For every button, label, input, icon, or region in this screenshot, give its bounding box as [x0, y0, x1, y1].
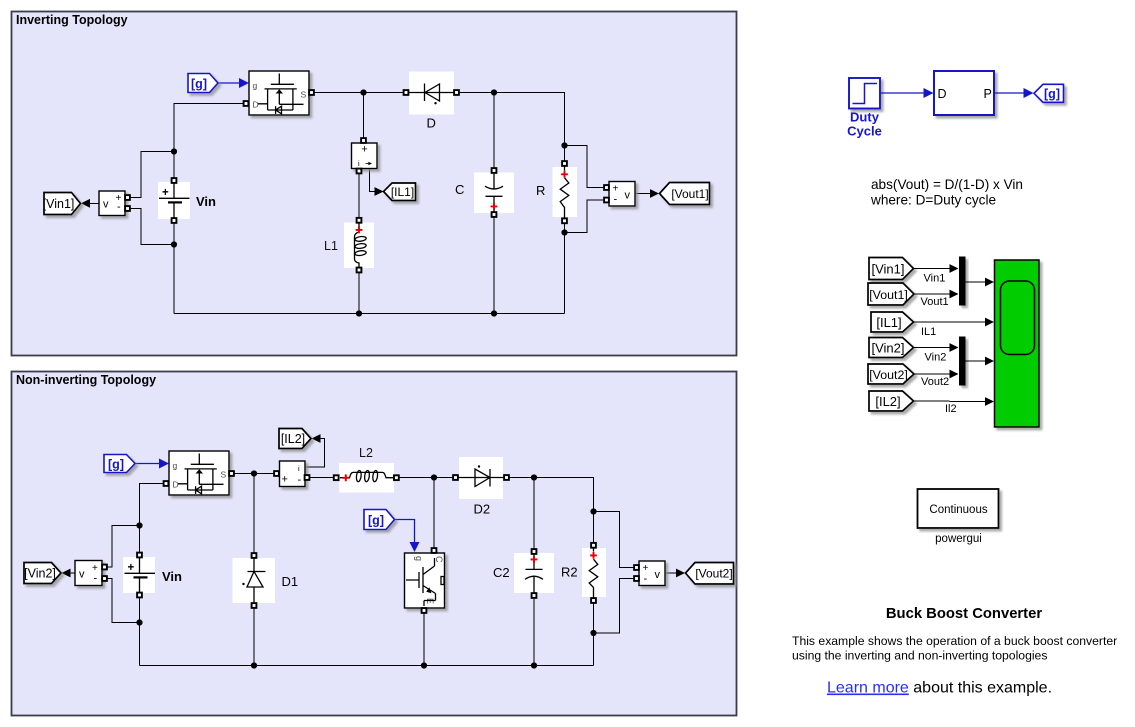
- svg-text:Duty: Duty: [850, 110, 880, 125]
- step source Duty Cycle: [847, 78, 882, 139]
- goto tag [Vin1]: [43, 193, 81, 215]
- wire: Mosfet source to diode D anode: [314, 92, 405, 94]
- wire: [g] to Mosfet gate: [218, 78, 249, 88]
- svg-text:[Vout2]: [Vout2]: [695, 567, 732, 581]
- from tag [g] (gate signal): [188, 74, 218, 93]
- svg-text:[g]: [g]: [1044, 87, 1060, 101]
- wire: L1 bottom to rail: [358, 273, 360, 314]
- svg-text:-: -: [117, 201, 121, 213]
- svg-text:Vin1: Vin1: [924, 273, 946, 285]
- svg-text:g: g: [173, 461, 178, 471]
- goto tag [IL2]: [279, 429, 311, 449]
- goto tag [Vin2]: [24, 563, 61, 584]
- node: IGBT rail junction: [421, 662, 427, 668]
- wire: Duty Cycle to subsystem D: [881, 88, 934, 98]
- inductor L2: [334, 446, 399, 493]
- svg-text:v: v: [79, 569, 85, 581]
- svg-text:+: +: [361, 144, 367, 156]
- svg-text:Vin: Vin: [196, 194, 216, 209]
- diode D: [404, 72, 459, 131]
- wire: R2 bottom to V4 minus: [594, 579, 635, 634]
- from tag [Vout1] (scope): [868, 283, 914, 305]
- resistor R2: [561, 543, 606, 603]
- transistor Mosfet (inverting): [244, 71, 314, 115]
- wire: Vin2 to mux2: [914, 343, 959, 363]
- wire: D1 bottom to rail: [253, 608, 255, 666]
- wire: C2 top branch: [533, 478, 535, 550]
- wire: Vout1 to mux1: [914, 290, 959, 308]
- wire: diode D cathode to R top corner: [456, 93, 565, 162]
- wire: I1 signal to goto IL1: [370, 169, 384, 196]
- svg-text:L2: L2: [359, 446, 373, 460]
- powergui block: [918, 489, 999, 545]
- scope block: [995, 260, 1040, 427]
- voltage measurement V3 (Vin2): [75, 561, 107, 586]
- svg-text:-: -: [298, 474, 302, 486]
- wire: V1 output to goto Vin1: [81, 199, 99, 208]
- wire: R bottom to rail: [564, 223, 566, 314]
- goto tag [g] (IGBT gate): [364, 510, 395, 530]
- node: D1 rail junction: [251, 662, 257, 668]
- resistor R: [536, 161, 577, 223]
- svg-text:D: D: [253, 100, 259, 110]
- svg-text:-: -: [614, 194, 618, 206]
- wire: L2 to D2 anode: [398, 477, 454, 479]
- wire: C2 bottom to rail: [533, 599, 535, 666]
- svg-text:D: D: [938, 87, 947, 101]
- wire: Mosfet1 drain to Vin node: [140, 484, 167, 553]
- svg-text:Inverting Topology: Inverting Topology: [16, 13, 128, 27]
- annotation: description: [792, 634, 1117, 663]
- annotation: title: [886, 606, 1042, 622]
- wire: junction down to D1: [253, 474, 255, 554]
- diode D1: [233, 553, 299, 608]
- svg-text:Cycle: Cycle: [847, 124, 882, 139]
- svg-text:IL1: IL1: [921, 326, 936, 338]
- wire: junction down to IGBT collector: [433, 478, 435, 549]
- wire: R2 bottom to rail corner: [593, 603, 595, 666]
- wire: node to voltage measurement V1 plus: [130, 152, 174, 198]
- svg-text:This example shows the operati: This example shows the operation of a bu…: [792, 634, 1117, 648]
- wire: Vin2 bottom to rail: [139, 597, 141, 666]
- wire: junction down to current measurement I1: [363, 93, 365, 139]
- svg-text:v: v: [655, 569, 661, 581]
- node: R top junction: [561, 142, 567, 148]
- wire: C top branch: [493, 93, 495, 169]
- svg-text:D: D: [427, 116, 436, 131]
- node: Vin2- junction: [136, 619, 142, 625]
- wire: I1 to L1: [358, 173, 360, 219]
- svg-text:[Vin1]: [Vin1]: [871, 262, 904, 277]
- source Vin (DC battery): [158, 178, 216, 223]
- svg-text:D: D: [173, 480, 179, 490]
- svg-text:C: C: [434, 556, 444, 563]
- node: L1 rail junction: [356, 310, 362, 316]
- from tag [Vout2] (scope): [868, 364, 914, 384]
- node: C top junction: [491, 89, 497, 95]
- svg-text:Vout2: Vout2: [921, 376, 949, 388]
- from tag [g] (gate signal, non-inverting): [104, 455, 135, 473]
- goto tag [Vout1]: [660, 183, 710, 205]
- mux Mux1: [959, 257, 966, 306]
- svg-text:[Vout1]: [Vout1]: [869, 288, 908, 302]
- svg-text:S: S: [301, 90, 307, 100]
- wire: IL2 to scope: [914, 397, 995, 415]
- node: R bottom junction: [561, 229, 567, 235]
- svg-text:C: C: [455, 182, 464, 197]
- svg-text:[Vin1]: [Vin1]: [43, 197, 75, 211]
- svg-text:Vin: Vin: [162, 569, 182, 584]
- svg-text:[IL2]: [IL2]: [875, 394, 900, 409]
- voltage measurement V1 (Vin1): [99, 191, 130, 216]
- svg-text:Vout1: Vout1: [921, 296, 949, 308]
- svg-text:+: +: [128, 562, 135, 574]
- svg-text:S: S: [221, 470, 227, 480]
- annotation: learn more: [827, 680, 1052, 697]
- svg-text:[IL1]: [IL1]: [391, 185, 414, 199]
- svg-text:R: R: [536, 183, 545, 198]
- svg-text:+: +: [282, 474, 288, 486]
- svg-text:D2: D2: [474, 502, 491, 517]
- node: C rail junction: [491, 310, 497, 316]
- capacitor C: [455, 168, 514, 217]
- wire: bottom rail: [174, 313, 565, 315]
- wire: Vin1 to mux1: [914, 264, 959, 284]
- from tag [Vin1] (scope): [869, 258, 914, 280]
- from tag [IL1] (scope): [871, 312, 914, 332]
- svg-text:-: -: [644, 573, 648, 585]
- svg-text:abs(Vout) = D/(1-D) x Vin: abs(Vout) = D/(1-D) x Vin: [871, 177, 1023, 192]
- svg-text:[Vin2]: [Vin2]: [24, 567, 56, 581]
- voltage measurement V2 (Vout1): [604, 182, 635, 207]
- svg-text:[g]: [g]: [368, 514, 384, 528]
- current measurement I2: [274, 461, 309, 487]
- svg-text:-: -: [94, 573, 98, 585]
- node: R2 top junction: [590, 508, 596, 514]
- wire: junction to V3 plus: [106, 526, 140, 568]
- wire: V3 minus branch: [106, 579, 140, 623]
- wire: mux1 to scope: [965, 278, 995, 287]
- transistor Mosfet1 (non-inverting): [164, 451, 234, 495]
- svg-text:+: +: [162, 187, 169, 199]
- wire: V3 output to goto Vin2: [62, 569, 76, 578]
- wire: Mosfet1 source to I2: [234, 473, 275, 475]
- svg-text:[IL2]: [IL2]: [281, 432, 305, 446]
- svg-text:L1: L1: [324, 239, 338, 253]
- svg-text:g: g: [253, 81, 258, 91]
- goto tag [IL1]: [384, 183, 416, 201]
- node: C2 top junction: [531, 474, 537, 480]
- diode D2: [453, 457, 509, 517]
- wire: mux2 to scope: [965, 357, 995, 366]
- svg-text:[Vin2]: [Vin2]: [871, 341, 904, 356]
- wire: goto [g] to IGBT gate: [395, 520, 420, 553]
- mux Mux2: [959, 337, 966, 386]
- svg-text:where: D=Duty cycle: where: D=Duty cycle: [870, 193, 996, 208]
- voltage measurement V4 (Vout2): [634, 561, 665, 586]
- goto tag [Vout2]: [686, 563, 734, 585]
- node: C2 rail junction: [531, 662, 537, 668]
- goto tag [g] (duty output): [1034, 84, 1064, 102]
- subsystem PWM block: [934, 71, 994, 115]
- svg-text:v: v: [625, 190, 631, 202]
- svg-text:Continuous: Continuous: [929, 504, 987, 516]
- svg-text:[Vout1]: [Vout1]: [671, 187, 708, 201]
- svg-text:v: v: [103, 199, 109, 211]
- node: source-D1 junction: [251, 470, 257, 476]
- svg-text:D1: D1: [282, 574, 299, 589]
- wire: IL1 to scope: [914, 318, 995, 338]
- wire: C bottom to rail: [493, 217, 495, 314]
- svg-text:[Vout2]: [Vout2]: [869, 368, 908, 382]
- inductor L1: [324, 218, 374, 272]
- wire: V4 output to goto Vout2: [665, 569, 685, 578]
- svg-text:Buck Boost Converter: Buck Boost Converter: [886, 606, 1042, 622]
- svg-text:powergui: powergui: [935, 533, 982, 545]
- subsystem area: Non-inverting Topology: [12, 372, 737, 716]
- svg-text:R2: R2: [561, 565, 578, 580]
- node: R2 bottom junction: [590, 630, 596, 636]
- transistor IGBT: [405, 548, 445, 613]
- node: Vin- junction: [171, 241, 177, 247]
- wire: Vin bottom to ground rail: [173, 223, 175, 314]
- svg-text:Non-inverting Topology: Non-inverting Topology: [16, 373, 156, 387]
- from tag [IL2] (scope): [869, 391, 914, 411]
- svg-text:[g]: [g]: [108, 458, 124, 472]
- node: Vin2+ junction: [136, 522, 142, 528]
- capacitor C2: [493, 549, 554, 598]
- node: Vin+ junction: [171, 148, 177, 154]
- wire: [g] to Mosfet1 gate: [135, 459, 169, 469]
- wire: Mosfet drain to Vin+ node: [174, 104, 246, 179]
- node: source-diode junction: [360, 89, 366, 95]
- svg-text:C2: C2: [493, 565, 510, 580]
- wire: R top to V2 plus: [565, 146, 605, 188]
- svg-text:Learn more about this example.: Learn more about this example.: [827, 680, 1052, 697]
- wire: I2 signal to goto IL2: [306, 434, 325, 467]
- wire: R bottom to V2 minus: [565, 200, 605, 233]
- wire: subsystem P to goto [g]: [995, 88, 1034, 98]
- svg-text:[g]: [g]: [191, 77, 207, 91]
- from tag [Vin2] (scope): [869, 338, 914, 358]
- wire: V1 minus to Vin- node: [130, 209, 174, 245]
- node: L2-IGBT junction: [431, 474, 437, 480]
- wire: bottom rail 2: [140, 665, 594, 667]
- svg-text:P: P: [984, 87, 992, 101]
- wire: R2 top to V4 plus: [594, 512, 635, 568]
- subsystem area: Inverting Topology: [12, 12, 737, 356]
- svg-text:Il2: Il2: [945, 403, 957, 415]
- svg-text:using the inverting and non-in: using the inverting and non-inverting to…: [792, 649, 1047, 663]
- current measurement I1: [352, 138, 378, 173]
- svg-text:g: g: [414, 556, 424, 561]
- wire: I2 minus to L2: [310, 477, 335, 479]
- wire: D2 cathode to R2 corner: [508, 478, 594, 544]
- annotation: equation: [870, 177, 1023, 208]
- svg-text:[IL1]: [IL1]: [876, 315, 901, 330]
- source Vin2 (DC battery): [123, 553, 182, 598]
- wire: IGBT emitter to rail: [423, 613, 425, 666]
- svg-text:Vin2: Vin2: [925, 352, 947, 364]
- wire: V2 output to goto Vout1: [635, 189, 659, 198]
- wire: Vout2 to mux2: [914, 370, 959, 388]
